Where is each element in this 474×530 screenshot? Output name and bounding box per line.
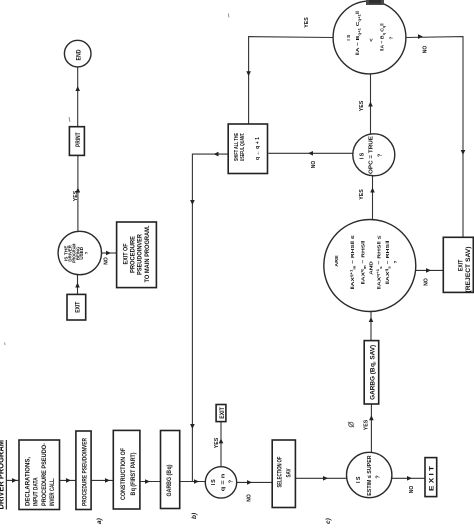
svg-text:YES: YES (214, 438, 220, 449)
svg-text:YES: YES (73, 191, 79, 202)
svg-text:PROCEDURE PSEUDOINVER: PROCEDURE PSEUDOINVER (81, 438, 88, 506)
svg-text:‖AXqs − RHS‖: ‖AXqs − RHS‖ (384, 241, 391, 285)
svg-text:q ← q + 1: q ← q + 1 (255, 137, 261, 160)
svg-text:PSEUDOINVER: PSEUDOINVER (138, 233, 144, 275)
svg-text:(REJECT SAV): (REJECT SAV) (465, 247, 472, 293)
svg-text:EXIT: EXIT (220, 407, 226, 419)
svg-text:IS: IS (211, 479, 217, 485)
svg-text:?: ? (229, 480, 235, 483)
svg-text:EXIT: EXIT (457, 260, 464, 272)
svg-text:NO: NO (409, 485, 415, 493)
svg-text:CONSTRUCTION OF: CONSTRUCTION OF (120, 448, 127, 500)
svg-text:YES: YES (304, 17, 310, 28)
svg-text:NO: NO (424, 278, 430, 286)
svg-text:B q (FIRST PART): B q (FIRST PART) (130, 453, 137, 496)
svg-text:?: ? (376, 475, 382, 478)
svg-text:‖A − Bq Cq‖: ‖A − Bq Cq‖ (380, 23, 386, 51)
svg-text:NO: NO (247, 494, 253, 502)
svg-text:E X I T: E X I T (429, 466, 436, 491)
svg-text:IS: IS (356, 476, 362, 483)
svg-text:PROCEDURE: PROCEDURE (131, 236, 137, 273)
svg-text:c): c) (325, 518, 332, 524)
svg-text:NO: NO (104, 257, 110, 265)
svg-text:NO: NO (311, 160, 317, 168)
svg-text:?: ? (393, 260, 399, 263)
svg-text:SAV: SAV (286, 468, 293, 478)
svg-text:SELECTION OF: SELECTION OF (277, 456, 284, 487)
svg-text:EXIT OF: EXIT OF (124, 243, 130, 264)
svg-text:TO MAIN PROGRAM.: TO MAIN PROGRAM. (145, 225, 151, 282)
svg-text:DRIVER PROGRAM: DRIVER PROGRAM (0, 440, 6, 510)
svg-text:OPC = TRUE: OPC = TRUE (369, 136, 375, 174)
svg-text:‖AXqm − RHS‖: ‖AXqm − RHS‖ (360, 241, 367, 285)
svg-text:AND: AND (369, 261, 375, 275)
svg-text:GARBG (B q): GARBG (B q) (166, 465, 173, 497)
svg-text:?: ? (378, 154, 384, 157)
svg-text:GARBG (B q, SAV): GARBG (B q, SAV) (370, 345, 377, 400)
svg-text:b): b) (191, 513, 198, 519)
svg-text:USEFUL QUANT.: USEFUL QUANT. (240, 132, 246, 161)
svg-text:INPUT DATA: INPUT DATA (33, 477, 40, 506)
svg-text:PRINT: PRINT (75, 132, 82, 147)
svg-text:?: ? (84, 251, 89, 254)
svg-text:INVER CALL.: INVER CALL. (49, 478, 56, 506)
svg-text:YES: YES (364, 420, 370, 431)
svg-text:PROCEDURE PSEUDO-: PROCEDURE PSEUDO- (41, 443, 48, 506)
svg-text:q = n: q = n (221, 474, 227, 492)
svg-text:‖A − Bq+1 Cq+1‖: ‖A − Bq+1 Cq+1‖ (355, 11, 361, 55)
svg-text:IS: IS (346, 34, 352, 41)
svg-text:IS: IS (360, 152, 366, 159)
svg-text:‖AXq+1m − RHS‖ ≤: ‖AXq+1m − RHS‖ ≤ (349, 235, 356, 289)
svg-text:DECLARATIONS,: DECLARATIONS, (24, 457, 31, 506)
svg-text:ESTIM ≤ SUPER: ESTIM ≤ SUPER (367, 455, 373, 495)
svg-text:EXIT: EXIT (75, 301, 82, 312)
svg-text:a): a) (96, 518, 103, 524)
svg-text:NO: NO (423, 45, 429, 53)
svg-text:‖AXq+1s − RHS‖ ≤: ‖AXq+1s − RHS‖ ≤ (376, 235, 383, 290)
svg-text:<: < (369, 38, 375, 42)
svg-text:YES: YES (359, 101, 365, 112)
svg-text:END: END (75, 49, 82, 60)
svg-text:?: ? (389, 36, 395, 39)
svg-text:YES: YES (359, 189, 365, 200)
svg-text:ARE: ARE (334, 254, 340, 266)
